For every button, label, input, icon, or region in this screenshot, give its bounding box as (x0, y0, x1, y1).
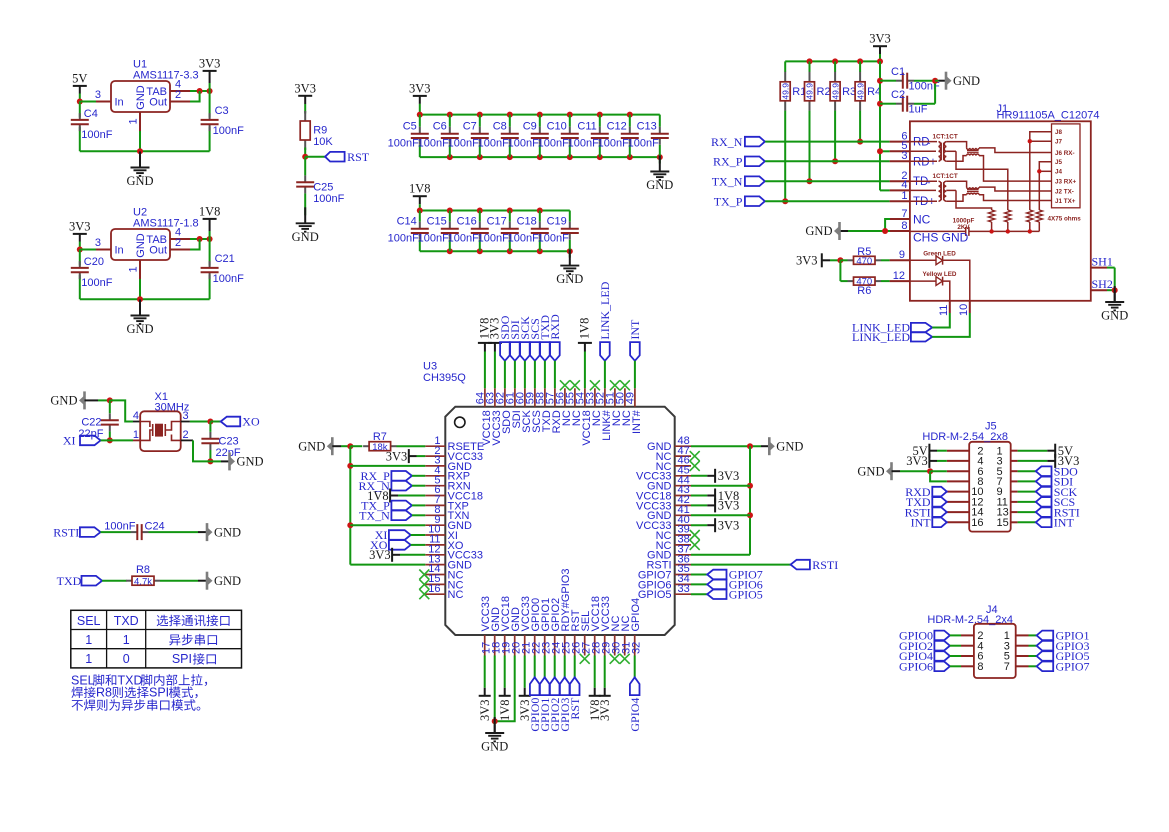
J5 pin 16 (947, 517, 984, 529)
J5 pin 12 (947, 497, 984, 509)
svg-text:16: 16 (428, 583, 440, 595)
svg-text:GND: GND (237, 455, 264, 469)
wire choke to J1 TX+ (979, 195, 1052, 201)
power flag 3V3 (294, 81, 316, 113)
svg-text:100nF: 100nF (81, 277, 112, 289)
svg-text:SEL: SEL (71, 673, 95, 687)
svg-text:49.9: 49.9 (805, 83, 815, 100)
net flag XI (63, 434, 133, 448)
U3 pin 37 (GND) (647, 544, 691, 562)
U3 pin 36 (RSTI) (646, 553, 691, 571)
svg-text:3V3: 3V3 (906, 454, 928, 468)
net flag TX_N (pin 8) (359, 509, 425, 523)
svg-text:C19: C19 (547, 215, 567, 227)
svg-text:In: In (115, 96, 124, 108)
U3 pin 12 (VCC33) (425, 544, 483, 562)
svg-text:XI: XI (63, 434, 76, 448)
svg-text:C1: C1 (891, 66, 905, 78)
power flag 3V3 (J5 pin 4) (906, 454, 947, 468)
capacitor C11 100nF (568, 115, 609, 158)
svg-text:2: 2 (175, 89, 181, 101)
J1 inner terminal box (1052, 124, 1081, 208)
power flag 3V3 (pin 45) (691, 469, 739, 483)
regulator U1 body (111, 59, 199, 113)
J4 pin 1 (1004, 630, 1029, 642)
svg-text:AMS1117-3.3: AMS1117-3.3 (133, 70, 199, 82)
svg-text:HR911105A_C12074: HR911105A_C12074 (997, 110, 1100, 122)
svg-text:100nF: 100nF (104, 520, 135, 532)
svg-text:100nF: 100nF (418, 232, 449, 244)
J5 pin 10 (947, 486, 984, 498)
net flag INT (J5 pin 16) (911, 516, 947, 530)
U3 pin 17 (VCC33) (480, 596, 492, 655)
svg-text:C3: C3 (215, 105, 229, 117)
svg-text:100nF: 100nF (448, 232, 479, 244)
ground flag (C24) (198, 523, 241, 541)
net flag RSTI (pin 36) (791, 558, 839, 572)
svg-text:GND: GND (214, 574, 241, 588)
diode Yellow LED (910, 271, 957, 301)
svg-text:GND: GND (646, 178, 673, 192)
net flag GPIO6 (pin 34) (691, 578, 763, 592)
svg-text:3V3: 3V3 (294, 81, 316, 95)
wire J8/J7 to R term 3 (1028, 132, 1052, 210)
svg-text:3: 3 (95, 237, 101, 249)
J4 pin 4 (961, 640, 984, 652)
wire J5/J4 to R term 4 (1037, 162, 1051, 210)
svg-text:TXD: TXD (57, 574, 82, 588)
net flag GPIO0 (J4 pin 2) (899, 629, 961, 643)
U3 pin 8 (TXN) (425, 504, 469, 522)
J5 pin 6 (947, 466, 984, 478)
note text line 2 (71, 686, 197, 700)
power flag 3V3 (LED) (796, 253, 843, 267)
net flag SCK (J5 pin 9) (1018, 485, 1078, 499)
J5 pin 13 (997, 507, 1018, 519)
net flag GPIO6 (J4 pin 8) (899, 660, 961, 674)
svg-text:GND: GND (953, 74, 980, 88)
svg-text:U3: U3 (423, 361, 437, 373)
svg-text:Green LED: Green LED (923, 250, 956, 257)
svg-text:3: 3 (95, 89, 101, 101)
power flag 3V3 (termination) (869, 32, 891, 62)
crystal X1 pin 4 (133, 410, 140, 422)
ground (292, 207, 319, 244)
ground (556, 250, 583, 287)
resistor R1 49.9 (780, 61, 806, 204)
U3 pin 63 (VCC33) (484, 388, 503, 445)
capacitor C16 100nF (448, 211, 489, 252)
capacitor C14 100nF (388, 211, 429, 252)
no-connect pin 27 SEL (580, 654, 590, 664)
power flag 5V (J5 pin 2) (913, 444, 947, 458)
crystal X1 pin 3 (181, 410, 190, 422)
label 1CT:1CT (RD) (933, 134, 958, 141)
U3 pin 64 (VCC18) (474, 388, 493, 445)
svg-text:22pF: 22pF (78, 428, 103, 440)
J5 pin 15 (997, 517, 1018, 529)
svg-text:470: 470 (856, 256, 872, 267)
svg-text:GND: GND (857, 464, 884, 478)
table communication mode selection (71, 610, 242, 668)
svg-text:10: 10 (958, 304, 970, 316)
wire top rail (785, 58, 883, 64)
J1 pin 11 (938, 301, 950, 316)
net flag LINK_LED (pin 10) (852, 313, 970, 344)
svg-text:INT: INT (911, 516, 932, 530)
net flag TXD (J5 pin 12) (906, 495, 947, 509)
net flag GPIO2 (J4 pin 4) (899, 639, 961, 653)
net flag XO (pin 11) (370, 538, 425, 552)
net flag RXD (J5 pin 10) (905, 485, 947, 499)
J1 pin 8 CHS GND (890, 220, 969, 245)
resistor R4 49.9 (855, 61, 881, 144)
svg-text:RSTI: RSTI (53, 525, 79, 539)
no-connect pins 56,55,53,51,50 (560, 380, 630, 390)
svg-text:C14: C14 (397, 215, 417, 227)
U3 pin 52 (LINK#) (594, 388, 613, 440)
svg-text:INT: INT (628, 319, 642, 340)
svg-text:2: 2 (183, 429, 189, 441)
U3 pin 58 (TXD) (534, 388, 553, 432)
J5 pin 3 (997, 456, 1018, 468)
svg-text:4.7k: 4.7k (134, 576, 152, 587)
ground flag (C23) (221, 452, 264, 470)
capacitor C23 22pF (201, 422, 240, 465)
svg-text:3V3: 3V3 (796, 254, 818, 268)
svg-text:AMS1117-1.8: AMS1117-1.8 (133, 218, 199, 230)
power flag 3V3 (409, 81, 431, 114)
U3 pin 40 (VCC33) (636, 514, 691, 532)
svg-text:9: 9 (899, 249, 905, 261)
U3 pin 35 (GPIO7) (638, 563, 691, 581)
net flag SCK (pin 60) (518, 316, 532, 388)
power flag 3V3 (pin 2) (386, 449, 426, 463)
svg-text:RX_N: RX_N (711, 135, 743, 149)
wire pins 18/20 GND (492, 656, 515, 726)
power flag 1V8 (199, 204, 221, 239)
capacitor C7 100nF (448, 115, 489, 158)
net flag TX_N (712, 174, 765, 188)
U3 pin 33 (GPIO5) (638, 583, 691, 601)
svg-text:1V8: 1V8 (498, 700, 512, 722)
svg-text:RXD: RXD (548, 314, 562, 340)
wire choke to J2 TX- (979, 187, 1052, 191)
wire termination rail (969, 229, 1039, 233)
power flag 1V8 (pin 54) (577, 318, 592, 389)
svg-text:1CT:1CT: 1CT:1CT (933, 134, 958, 141)
J1 pin 6 (890, 130, 910, 142)
capacitor C17 100nF (478, 211, 519, 252)
J4 pin 8 (961, 661, 984, 673)
U3 pin 1 (RSETE) (425, 435, 484, 453)
svg-text:1: 1 (85, 652, 92, 666)
net flag XI (pin 10) (375, 528, 426, 542)
svg-text:49: 49 (624, 392, 636, 404)
svg-text:100nF: 100nF (213, 273, 244, 285)
svg-text:3V3: 3V3 (386, 449, 408, 463)
svg-text:100nF: 100nF (508, 232, 539, 244)
net flag INT (pin 49) (628, 319, 642, 388)
U3 pin 34 (GPIO6) (638, 573, 691, 591)
svg-text:GND: GND (292, 230, 319, 244)
svg-text:R2: R2 (817, 86, 831, 98)
U3 pin 30 (NC) (610, 616, 622, 656)
svg-text:C2: C2 (891, 89, 905, 101)
U3 pin 61 (SDI) (504, 388, 523, 428)
U3 pin 29 (VCC33) (600, 596, 612, 655)
U3 pin 41 (GND) (647, 504, 691, 522)
U3 pin 42 (VCC33) (636, 494, 691, 512)
svg-text:100nF: 100nF (388, 137, 419, 149)
svg-text:0: 0 (123, 652, 130, 666)
power flag 3V3 (199, 56, 221, 91)
svg-text:RX_P: RX_P (713, 155, 743, 169)
svg-text:7: 7 (901, 208, 907, 220)
U3 pin 14 (NC) (425, 563, 463, 581)
ground flag (pin 48) (761, 437, 803, 455)
power flag 1V8 (pin 43) (691, 489, 739, 503)
net flag RSTI (J5 pin 14) (905, 505, 947, 519)
wire (190, 88, 213, 102)
wire 3V3 vertical to C1 C2 and pins 5/4 (877, 61, 890, 190)
U3 pin 4 (RXP) (425, 465, 470, 483)
svg-text:100nF: 100nF (81, 129, 112, 141)
svg-text:1: 1 (85, 633, 92, 647)
note text line 1 (71, 673, 207, 687)
svg-text:J2 TX-: J2 TX- (1055, 188, 1074, 195)
capacitor C9 100nF (508, 115, 549, 158)
U3 pin 11 (XO) (425, 534, 464, 552)
net flag SCS (pin 59) (528, 318, 542, 388)
connector J1 HR911105A_C12074 body (910, 103, 1100, 301)
net flag RX_N (pin 5) (358, 479, 425, 493)
wire (77, 242, 96, 253)
U3 pin 43 (VCC18) (636, 484, 691, 502)
wire choke to J3 RX+ (979, 156, 1052, 182)
U3 pin 49 (INT#) (624, 388, 643, 434)
ground (126, 300, 153, 337)
J5 pin 4 (947, 456, 984, 468)
svg-text:GND: GND (556, 272, 583, 286)
net flag TXD (pin 58) (538, 315, 552, 389)
wire (304, 193, 306, 215)
J1 pin name TD+ (913, 196, 935, 208)
ground flag (C1/C2) (935, 72, 980, 90)
U3 pin 51 (NC) (604, 388, 623, 426)
note text line 3 (72, 699, 201, 711)
svg-text:C9: C9 (523, 120, 537, 132)
svg-text:GND: GND (1101, 309, 1128, 323)
net flag RX_N (711, 135, 765, 149)
U3 pin 15 (NC) (425, 573, 463, 591)
svg-text:SPI: SPI (172, 652, 192, 666)
svg-text:100nF: 100nF (628, 137, 659, 149)
net flag SDO (pin 62) (498, 315, 512, 388)
U3 pin 19 (VCC18) (500, 596, 512, 655)
svg-text:15: 15 (997, 517, 1009, 529)
no-connect pins 14-16 (419, 570, 429, 600)
capacitor C12 100nF (598, 115, 639, 158)
svg-text:SEL: SEL (77, 614, 101, 628)
J1 pin SH2 (1091, 277, 1113, 291)
svg-text:8: 8 (977, 661, 983, 673)
svg-text:100nF: 100nF (598, 137, 629, 149)
svg-text:C7: C7 (463, 120, 477, 132)
wire (193, 440, 221, 461)
U3 pin 16 (NC) (425, 583, 463, 601)
U3 pin 44 (GND) (647, 474, 691, 492)
svg-text:100nF: 100nF (538, 137, 569, 149)
svg-text:GND: GND (298, 439, 325, 453)
svg-text:3: 3 (183, 410, 189, 422)
U3 pin 47 (NC) (656, 445, 691, 463)
wire GND bus right of U3 (691, 446, 753, 555)
regulator U2 body (111, 207, 199, 261)
svg-text:C16: C16 (457, 215, 477, 227)
svg-text:R8: R8 (136, 564, 150, 576)
power flag 3V3 (J5 pin 3) (1018, 454, 1080, 468)
svg-text:3V3: 3V3 (718, 469, 740, 483)
net flag LINK_LED (pin 11) (852, 313, 950, 335)
wire (80, 239, 210, 302)
svg-text:RST: RST (568, 697, 582, 720)
wire RD centre tap to R term 2 (956, 151, 1008, 210)
svg-text:SPI: SPI (149, 686, 169, 700)
J4 pin 6 (961, 651, 984, 663)
regulator U1 pin 4 (TAB) (170, 79, 190, 92)
svg-text:GPIO6: GPIO6 (899, 660, 933, 674)
J1 pin SH1 (1091, 254, 1113, 268)
svg-text:Yellow LED: Yellow LED (923, 271, 957, 278)
svg-text:100nF: 100nF (448, 137, 479, 149)
svg-text:C20: C20 (84, 256, 104, 268)
svg-text:100nF: 100nF (568, 137, 599, 149)
J1 pin 7 NC (890, 208, 931, 227)
svg-text:CH395Q: CH395Q (423, 372, 466, 384)
wire TD centre tap to R term 1 (956, 190, 992, 210)
wire choke to J6 RX- (979, 148, 1052, 153)
svg-text:J8: J8 (1055, 129, 1063, 136)
svg-text:INT: INT (1054, 516, 1075, 530)
net flag GPIO7 (J4 pin 7) (1029, 660, 1090, 674)
net flag TX_P (pin 7) (361, 499, 425, 513)
wire to X1 pin 4 (110, 400, 133, 421)
U3 pin 28 (VCC18) (590, 596, 602, 655)
net flag TXD (57, 574, 102, 588)
net flag RX_P (713, 155, 765, 169)
wire RX_N to J1 pin 6 (765, 141, 889, 143)
U3 pin 20 (GND) (510, 607, 522, 656)
resistor R5 470 (840, 246, 889, 267)
U3 pin 45 (VCC33) (636, 465, 691, 483)
net flag RXD (pin 57) (548, 314, 562, 388)
J5 pin 2 (947, 445, 984, 457)
svg-text:C5: C5 (403, 120, 417, 132)
ground (646, 156, 673, 193)
svg-text:TXD: TXD (114, 614, 139, 628)
svg-text:NC: NC (913, 213, 931, 227)
svg-text:INT#: INT# (631, 409, 643, 434)
svg-text:8: 8 (901, 220, 907, 232)
net flag GPIO4 (pin 32) (628, 656, 642, 732)
wire pin 48 GND (691, 443, 761, 449)
svg-text:LINK_LED: LINK_LED (852, 330, 910, 344)
svg-text:3V3: 3V3 (869, 32, 891, 46)
regulator U2 pin 4 (TAB) (170, 227, 190, 240)
J1 pin 5 (890, 140, 910, 152)
svg-text:R8: R8 (96, 686, 112, 700)
svg-text:-: - (928, 178, 931, 188)
svg-text:1: 1 (128, 118, 140, 124)
svg-text:J3 RX+: J3 RX+ (1055, 178, 1077, 185)
svg-text:3V3: 3V3 (69, 219, 91, 233)
svg-text:TXD: TXD (118, 673, 143, 687)
wire GND bus left of U3 (347, 446, 425, 564)
J1 pin 2 (890, 170, 910, 182)
svg-text:3V3: 3V3 (598, 700, 612, 722)
svg-text:100nF: 100nF (478, 232, 509, 244)
capacitor C6 100nF (418, 115, 459, 158)
U3 pin 46 (NC) (656, 455, 691, 473)
capacitor C10 100nF (538, 115, 579, 158)
svg-text:49.9: 49.9 (855, 83, 865, 100)
J5 pin 5 (997, 466, 1018, 478)
svg-text:GND: GND (126, 174, 153, 188)
wire TX_P to J1 pin 1 (765, 200, 889, 202)
regulator U2 pin 3 (95, 237, 111, 250)
U3 pin 32 (GPIO4) (630, 598, 642, 656)
svg-text:1uF: 1uF (909, 104, 928, 116)
power flag 1V8 (pin 19) (498, 656, 512, 722)
svg-text:1V8: 1V8 (577, 318, 591, 340)
crystal X1 pin 1 (133, 429, 140, 441)
U3 pin 48 (GND) (647, 435, 691, 453)
svg-text:C24: C24 (145, 520, 165, 532)
U3 pin 9 (GND) (425, 514, 472, 532)
svg-text:5V: 5V (72, 71, 87, 85)
transformer T1 (RD 1CT:1CT) (910, 142, 979, 162)
power flag 5V (J5 pin 1) (1018, 444, 1073, 458)
svg-text:GPIO5: GPIO5 (729, 588, 763, 602)
svg-text:C22: C22 (81, 417, 101, 429)
svg-text:3V3: 3V3 (199, 56, 221, 70)
svg-text:1CT:1CT: 1CT:1CT (933, 173, 958, 180)
capacitor C21 100nF (201, 253, 244, 285)
net flag TX_P (714, 194, 765, 208)
svg-text:12: 12 (893, 270, 905, 282)
svg-text:TD+: TD+ (913, 196, 935, 208)
svg-text:4X75 ohms: 4X75 ohms (1048, 216, 1082, 223)
U3 pin 21 (VCC33) (520, 596, 532, 655)
wire (80, 91, 210, 154)
net flag GPIO5 (pin 33) (691, 588, 763, 602)
power flag 3V3 (pin 63) (487, 318, 502, 389)
net flag GPIO1 (pin 23) (538, 656, 552, 732)
svg-text:HDR-M-2.54_2x4: HDR-M-2.54_2x4 (927, 614, 1013, 626)
net flag GPIO0 (pin 22) (528, 656, 542, 732)
svg-text:100nF: 100nF (388, 232, 419, 244)
net flag RSTI (53, 525, 100, 539)
regulator U2 pin 2 (Out) (170, 237, 190, 250)
ground (U3 bottom) (481, 717, 508, 754)
crystal X1 pin 2 (181, 429, 193, 441)
regulator U1 pin 2 (Out) (170, 89, 190, 102)
net flag RX_P (pin 4) (360, 469, 425, 483)
ground flag (chassis) (805, 222, 848, 240)
svg-text:RD+: RD+ (913, 156, 937, 168)
power flag 1V8 (pin 64) (477, 318, 492, 389)
